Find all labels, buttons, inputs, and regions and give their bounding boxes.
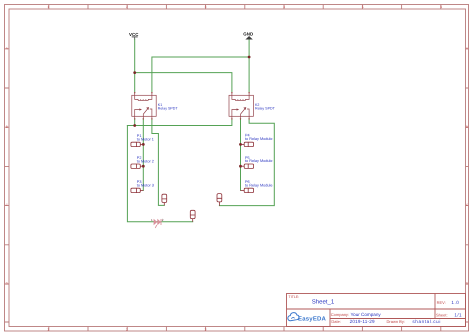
svg-text:B: B (466, 125, 468, 129)
svg-text:Relay SPDT: Relay SPDT (255, 107, 276, 111)
svg-text:2: 2 (126, 5, 128, 9)
svg-text:B: B (6, 125, 8, 129)
svg-text:2019-11-29: 2019-11-29 (350, 319, 375, 324)
svg-text:VCC: VCC (129, 32, 139, 37)
svg-text:EasyEDA: EasyEDA (298, 316, 327, 323)
svg-text:Relay SPDT: Relay SPDT (158, 107, 179, 111)
svg-text:to Motor 3: to Motor 3 (137, 184, 154, 188)
svg-text:2: 2 (126, 327, 128, 331)
svg-text:1: 1 (47, 327, 49, 331)
svg-text:3: 3 (205, 5, 207, 9)
svg-text:to Relay Module: to Relay Module (245, 159, 272, 163)
svg-text:shantal.cui: shantal.cui (412, 319, 441, 324)
svg-text:Company:: Company: (331, 312, 349, 317)
svg-text:to Motor 1: to Motor 1 (137, 138, 154, 142)
svg-text:1.0: 1.0 (451, 300, 459, 305)
svg-text:6: 6 (440, 5, 442, 9)
svg-text:Drawn By:: Drawn By: (387, 319, 405, 324)
svg-text:to Relay Module: to Relay Module (245, 184, 272, 188)
svg-text:3: 3 (205, 327, 207, 331)
svg-text:to Motor 2: to Motor 2 (137, 159, 154, 163)
svg-text:4: 4 (283, 5, 285, 9)
svg-text:Sheet_1: Sheet_1 (312, 298, 335, 305)
svg-text:1: 1 (47, 5, 49, 9)
svg-text:TITLE:: TITLE: (289, 295, 300, 299)
svg-text:1/1: 1/1 (454, 313, 462, 318)
svg-text:5: 5 (362, 5, 364, 9)
svg-text:Your Company: Your Company (351, 312, 382, 317)
svg-text:REV:: REV: (437, 300, 446, 305)
svg-text:Sheet:: Sheet: (436, 313, 448, 318)
svg-text:GND: GND (243, 32, 253, 37)
svg-text:Date:: Date: (331, 319, 341, 324)
svg-text:to Relay Module: to Relay Module (245, 137, 272, 141)
